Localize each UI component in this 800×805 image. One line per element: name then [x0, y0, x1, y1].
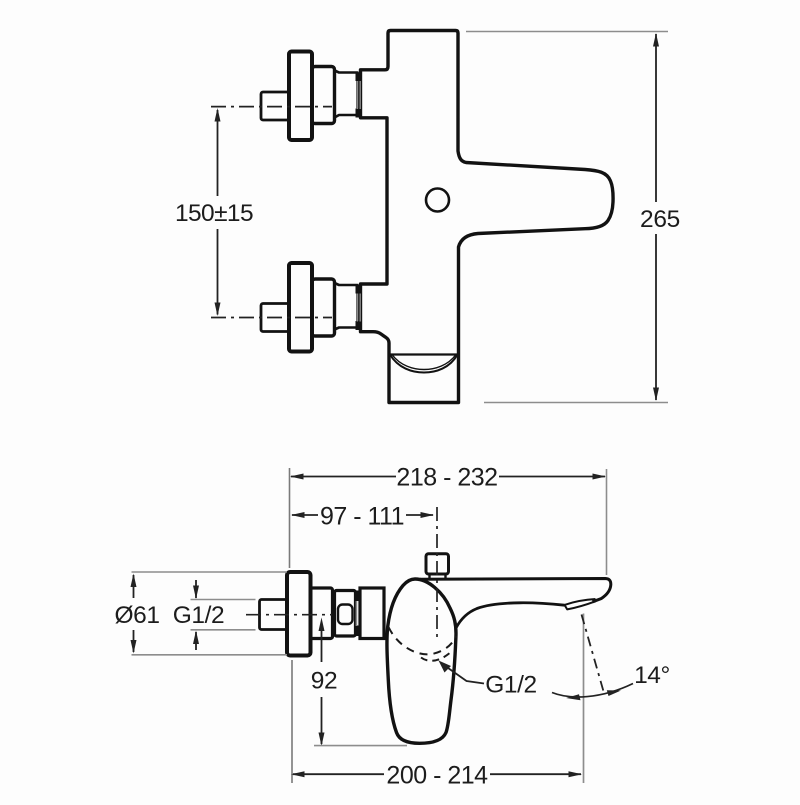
- body outline: [361, 31, 614, 403]
- neck top: [335, 71, 358, 118]
- svg-text:Ø61: Ø61: [114, 602, 159, 629]
- svg-text:200 - 214: 200 - 214: [386, 762, 488, 790]
- lever blade top: [420, 579, 611, 602]
- stub side: [260, 600, 288, 630]
- arrow down: [215, 303, 221, 317]
- thread seal marks bottom: [356, 285, 362, 294]
- stub S-union top: [261, 92, 289, 120]
- svg-text:G1/2: G1/2: [173, 602, 225, 629]
- lever underside: [456, 603, 565, 628]
- main body egg: [387, 579, 456, 743]
- spout aerator line: [390, 353, 458, 355]
- escutcheon bottom: [289, 263, 312, 352]
- svg-text:97 - 111: 97 - 111: [320, 503, 404, 531]
- ring side: [311, 588, 333, 639]
- escutcheon side: [287, 572, 311, 656]
- stub S-union bottom: [261, 304, 289, 332]
- nut bottom: [312, 279, 335, 336]
- svg-text:150±15: 150±15: [175, 200, 253, 227]
- cartridge screw circle: [426, 189, 449, 212]
- datum line bottom of body: [314, 745, 407, 747]
- projection vertical line: [583, 614, 585, 784]
- arrow up: [215, 108, 221, 122]
- extension line top: [466, 31, 668, 33]
- centerline top inlet: [211, 106, 332, 108]
- diverter knob: [426, 554, 449, 574]
- nut side: [335, 591, 356, 637]
- svg-text:14°: 14°: [634, 662, 670, 689]
- arc arrow left: [566, 694, 581, 700]
- centerline bottom inlet: [211, 317, 332, 319]
- nut top: [312, 67, 335, 124]
- dim line 150: [217, 110, 219, 196]
- hidden dashed arc small: [421, 651, 453, 661]
- slanted dash-dot: [582, 615, 605, 694]
- escutcheon top: [289, 52, 312, 141]
- svg-text:218 - 232: 218 - 232: [396, 464, 497, 492]
- diverter stem: [430, 575, 446, 579]
- thread seal marks top: [356, 73, 362, 82]
- thread marks side: [355, 591, 361, 602]
- extension line bottom: [484, 402, 668, 404]
- aerator arc outer: [390, 355, 458, 373]
- angle arc: [552, 684, 633, 697]
- svg-text:G1/2: G1/2: [485, 672, 537, 699]
- dim line 265: [655, 34, 657, 202]
- hidden dashed arc large: [389, 627, 457, 654]
- valve body cylinder side: [360, 588, 384, 639]
- neck bottom: [335, 283, 358, 330]
- arc arrow right: [607, 690, 621, 696]
- nut square flat: [338, 605, 353, 625]
- svg-text:265: 265: [640, 206, 680, 233]
- aerator arc inner: [392, 355, 456, 370]
- svg-text:92: 92: [311, 668, 337, 695]
- cartridge axis dash-dot: [436, 507, 438, 637]
- centerline side inlet: [246, 614, 332, 616]
- outlet wedge: [565, 599, 596, 609]
